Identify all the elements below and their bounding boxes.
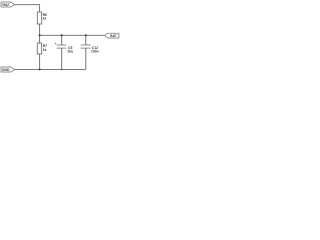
svg-text:1k: 1k xyxy=(43,48,47,52)
svg-text:GND: GND xyxy=(2,68,10,72)
svg-text:1k: 1k xyxy=(43,17,47,21)
svg-text:+BAT: +BAT xyxy=(2,3,11,7)
svg-text:10u: 10u xyxy=(67,49,73,53)
svg-text:100n: 100n xyxy=(91,49,99,53)
svg-text:BAT: BAT xyxy=(110,34,116,38)
